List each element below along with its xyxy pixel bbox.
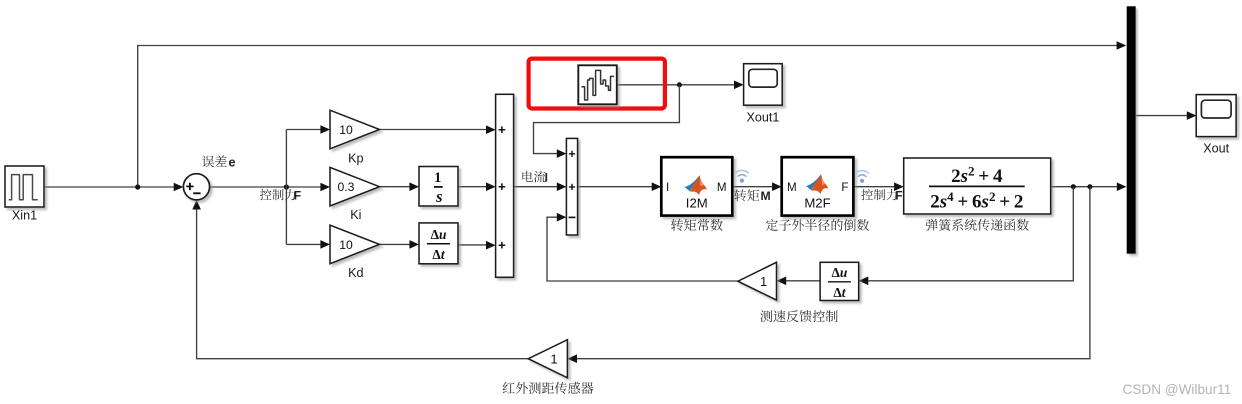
svg-text:Xout: Xout <box>1203 142 1229 156</box>
svg-text:M2F: M2F <box>804 196 830 211</box>
svg-text:0.3: 0.3 <box>338 180 355 194</box>
svg-text:I: I <box>666 181 669 194</box>
svg-text:s: s <box>435 187 442 206</box>
svg-text:1: 1 <box>760 274 767 289</box>
svg-text:10: 10 <box>339 238 353 252</box>
svg-text:1: 1 <box>434 170 441 186</box>
svg-text:Δu: Δu <box>431 227 447 242</box>
svg-text:CSDN @Wilbur11: CSDN @Wilbur11 <box>1123 382 1232 397</box>
svg-text:2s2 + 4: 2s2 + 4 <box>951 164 1003 188</box>
svg-text:Xin1: Xin1 <box>12 209 37 223</box>
svg-text:Xout1: Xout1 <box>746 110 779 124</box>
svg-text:M: M <box>761 189 771 203</box>
svg-text:F: F <box>895 188 902 202</box>
svg-text:I2M: I2M <box>686 196 708 211</box>
svg-text:2s4 + 6s2 + 2: 2s4 + 6s2 + 2 <box>930 189 1023 213</box>
svg-text:Δu: Δu <box>831 265 847 280</box>
svg-text:1: 1 <box>550 351 557 366</box>
svg-text:M: M <box>787 181 797 194</box>
svg-text:e: e <box>229 155 236 169</box>
svg-text:F: F <box>841 181 848 194</box>
svg-text:Kd: Kd <box>348 266 363 280</box>
svg-text:Δt: Δt <box>833 285 846 300</box>
svg-text:10: 10 <box>339 123 353 137</box>
svg-text:I: I <box>545 170 548 184</box>
svg-text:F: F <box>294 188 301 202</box>
svg-text:Ki: Ki <box>350 208 361 222</box>
svg-text:M: M <box>717 181 727 194</box>
svg-text:Δt: Δt <box>432 247 445 262</box>
svg-text:Kp: Kp <box>348 151 363 165</box>
